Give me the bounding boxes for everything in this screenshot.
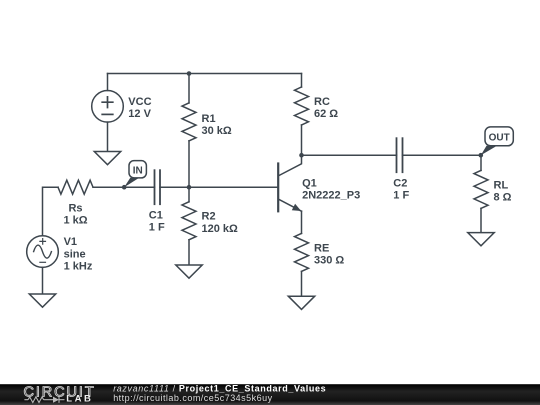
resistor RC — [295, 87, 309, 125]
wire C1 to node — [160, 186, 189, 188]
svg-text:330 Ω: 330 Ω — [314, 255, 344, 267]
wire RE bottom stub — [301, 271, 303, 296]
wire R1 bottom stub — [188, 141, 190, 187]
svg-text:LAB: LAB — [66, 393, 93, 404]
logo resistor-diode symbol — [24, 397, 64, 403]
ground (RL) — [468, 233, 494, 246]
svg-text:RE: RE — [314, 242, 329, 254]
wire mid rail left (node to C2) — [302, 154, 397, 156]
resistor Rs — [58, 180, 93, 194]
label R1 — [202, 113, 232, 137]
svg-text:razvanc1111 / Project1_CE_Stan: razvanc1111 / Project1_CE_Standard_Value… — [113, 383, 326, 393]
svg-text:2N2222_P3: 2N2222_P3 — [302, 190, 360, 202]
label RL — [494, 179, 512, 203]
svg-text:VCC: VCC — [128, 96, 151, 108]
flag OUT — [481, 127, 514, 155]
wire R2 top stub — [188, 187, 190, 202]
svg-text:30 kΩ: 30 kΩ — [202, 125, 232, 137]
resistor RL — [474, 170, 488, 208]
wire VCC top stub — [107, 74, 109, 91]
wire C2 to OUT node — [403, 154, 482, 156]
svg-text:Rs: Rs — [68, 202, 82, 214]
svg-text:120 kΩ: 120 kΩ — [202, 223, 239, 235]
label VCC — [128, 96, 151, 120]
svg-text:R2: R2 — [202, 211, 216, 223]
svg-text:IN: IN — [133, 166, 143, 177]
wire top rail — [108, 73, 302, 75]
ground (V1) — [29, 294, 55, 307]
ground (R2) — [176, 265, 202, 278]
resistor R2 — [182, 202, 196, 240]
svg-text:1 kHz: 1 kHz — [64, 261, 93, 273]
label R2 — [202, 211, 239, 235]
wire RL bottom stub — [480, 208, 482, 232]
svg-text:C2: C2 — [393, 177, 407, 189]
svg-text:V1: V1 — [64, 236, 77, 248]
resistor RE — [295, 233, 309, 271]
node top rail/R1 — [187, 71, 192, 76]
wire emitter to RE — [301, 211, 303, 233]
svg-text:OUT: OUT — [489, 132, 510, 143]
svg-text:sine: sine — [64, 248, 86, 260]
wire Rs to IN node — [93, 186, 155, 188]
svg-text:RC: RC — [314, 96, 330, 108]
ground (RE) — [288, 296, 314, 309]
label C2 — [393, 177, 409, 201]
transistor Q1 — [278, 155, 301, 211]
svg-text:62 Ω: 62 Ω — [314, 108, 338, 120]
svg-text:R1: R1 — [202, 113, 216, 125]
wire RC top stub — [301, 74, 303, 88]
wire R1 top stub — [188, 74, 190, 103]
node R1/R2/base — [187, 185, 192, 190]
label RC — [314, 96, 338, 120]
node collector — [299, 153, 304, 158]
voltage source VCC — [92, 91, 124, 123]
node OUT — [479, 153, 484, 158]
flag IN — [124, 161, 146, 188]
svg-text:C1: C1 — [149, 209, 163, 221]
resistor R1 — [182, 103, 196, 141]
svg-text:RL: RL — [494, 179, 509, 191]
svg-text:1 F: 1 F — [149, 222, 165, 234]
capacitor C1 — [155, 170, 161, 204]
wire base — [189, 186, 277, 188]
wire V1 bottom stub — [42, 267, 44, 294]
svg-text:http://circuitlab.com/ce5c734s: http://circuitlab.com/ce5c734s5k6uy — [113, 393, 272, 403]
source V1 — [27, 236, 59, 268]
svg-text:Q1: Q1 — [302, 177, 317, 189]
capacitor C2 — [397, 138, 403, 172]
node IN — [122, 185, 127, 190]
label V1 — [64, 236, 93, 272]
ground (VCC) — [94, 152, 120, 165]
svg-text:8 Ω: 8 Ω — [494, 192, 512, 204]
label Q1 — [302, 177, 360, 201]
label RE — [314, 242, 344, 266]
wire RL top stub — [480, 155, 482, 170]
label Rs — [63, 202, 87, 226]
svg-text:12 V: 12 V — [128, 108, 151, 120]
svg-text:1 F: 1 F — [393, 190, 409, 202]
wire VCC to ground — [107, 122, 109, 151]
svg-text:1 kΩ: 1 kΩ — [63, 215, 87, 227]
wire R2 bottom stub — [188, 240, 190, 265]
wire V1 top to input rail — [43, 187, 59, 236]
label C1 — [149, 209, 165, 233]
wire RC bottom stub — [301, 125, 303, 155]
